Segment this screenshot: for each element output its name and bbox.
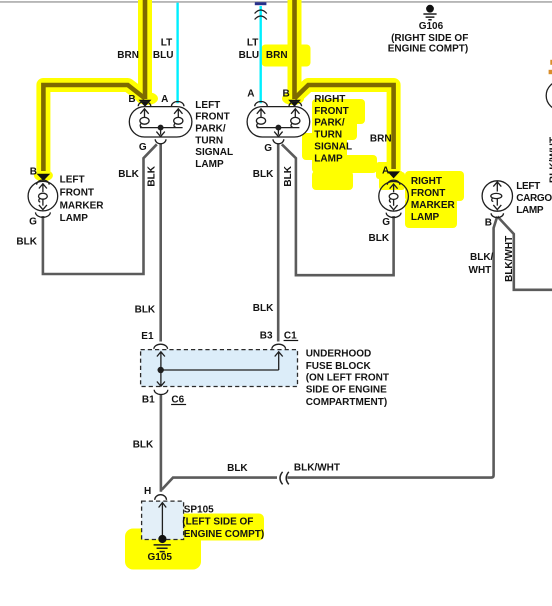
svg-text:B: B: [30, 166, 37, 177]
name left front park/turn signal lamp: [195, 100, 233, 170]
wire BLK fuse B1 to splice H: [160, 395, 163, 492]
svg-text:BLK/WHT: BLK/WHT: [294, 463, 340, 474]
svg-text:FRONT: FRONT: [411, 188, 445, 199]
svg-text:A: A: [161, 94, 168, 105]
svg-text:G: G: [264, 143, 272, 154]
highlight SP105 location text: [177, 514, 264, 541]
highlight right park/turn lamp name: [302, 99, 377, 190]
splice SP105 box: [142, 495, 184, 543]
wire BRN right branch to marker lamp: [295, 85, 394, 169]
svg-text:G106: G106: [419, 21, 444, 32]
svg-text:E1: E1: [141, 331, 154, 342]
svg-text:SIGNAL: SIGNAL: [314, 142, 352, 153]
svg-text:TURN: TURN: [314, 130, 342, 141]
svg-text:FUSE BLOCK: FUSE BLOCK: [306, 361, 372, 372]
svg-text:BLK: BLK: [133, 440, 154, 451]
highlight right BRN wire: [282, 0, 403, 180]
svg-text:RIGHT: RIGHT: [314, 94, 345, 105]
svg-text:LEFT: LEFT: [516, 181, 540, 192]
svg-text:B: B: [485, 217, 492, 228]
svg-text:B3: B3: [260, 331, 273, 342]
svg-text:BRN: BRN: [370, 134, 392, 145]
svg-text:UNDERHOOD: UNDERHOOD: [306, 348, 372, 359]
svg-text:LAMP: LAMP: [411, 212, 440, 223]
svg-text:LEFT: LEFT: [195, 100, 220, 111]
wire BLK right park/turn G to fuse B3: [277, 144, 280, 342]
svg-text:LAMP: LAMP: [516, 205, 544, 216]
orange marks right edge: [549, 70, 552, 74]
wire LT BLU left: [176, 3, 178, 104]
svg-text:SP105: SP105: [184, 504, 214, 515]
svg-text:C6: C6: [171, 395, 184, 406]
svg-text:LT: LT: [247, 37, 258, 48]
highlight left BRN wire: [34, 0, 158, 181]
underhood fuse block: [141, 344, 298, 394]
svg-text:BLU: BLU: [239, 50, 260, 61]
ground G106: [423, 5, 436, 20]
off-page connector at right LT BLU: [255, 2, 267, 19]
svg-text:TURN: TURN: [195, 135, 223, 146]
wire BLK/WHT connector to left cargo lamp B: [287, 217, 497, 478]
svg-text:BLK: BLK: [146, 165, 157, 186]
svg-text:BRN: BRN: [266, 50, 288, 61]
svg-text:(ON LEFT FRONT: (ON LEFT FRONT: [306, 373, 389, 384]
arrow BRN into left marker B: [37, 174, 51, 181]
highlight BRN label (right): [262, 45, 311, 67]
in-line connector on BLK/BLK-WHT wire: [280, 472, 289, 485]
svg-text:LAMP: LAMP: [60, 213, 89, 224]
wire LT BLU right: [260, 6, 262, 103]
lamp outline right front marker: [379, 180, 409, 217]
highlight G105: [125, 529, 201, 570]
svg-text:G: G: [139, 142, 147, 153]
svg-text:MARKER: MARKER: [411, 200, 456, 211]
top border line: [0, 1, 552, 3]
svg-text:SIGNAL: SIGNAL: [195, 147, 233, 158]
wire BLK horizontal to splice: [162, 478, 277, 490]
svg-text:BLK: BLK: [118, 169, 139, 180]
svg-text:MARKER: MARKER: [60, 200, 105, 211]
wire BLK/WHT cargo lamp branch to right edge: [498, 217, 552, 290]
wire BRN right vertical: [292, 0, 297, 99]
svg-text:LEFT: LEFT: [60, 174, 85, 185]
svg-text:G105: G105: [148, 552, 173, 563]
svg-text:FRONT: FRONT: [195, 112, 229, 123]
svg-text:LAMP: LAMP: [195, 159, 224, 170]
svg-text:LAMP: LAMP: [314, 153, 343, 164]
svg-text:RIGHT: RIGHT: [411, 176, 442, 187]
name right front park/turn signal lamp: [314, 94, 352, 164]
svg-text:FRONT: FRONT: [314, 106, 348, 117]
svg-text:A: A: [247, 88, 254, 99]
highlight right marker lamp name: [405, 171, 464, 228]
wire BLK left marker G to left park/turn G: [43, 144, 157, 274]
svg-text:BLK/WHT: BLK/WHT: [549, 137, 552, 183]
svg-text:G: G: [382, 217, 390, 228]
wire BLK right marker G to right park/turn G: [282, 144, 394, 275]
svg-text:WHT: WHT: [469, 265, 492, 276]
svg-text:BLK: BLK: [16, 236, 37, 247]
name left cargo lamp: [516, 181, 552, 216]
svg-text:(RIGHT SIDE OF: (RIGHT SIDE OF: [391, 33, 468, 44]
name splice SP105: [182, 504, 264, 540]
svg-text:BLK: BLK: [369, 233, 390, 244]
svg-text:(LEFT SIDE OF: (LEFT SIDE OF: [182, 517, 253, 528]
svg-text:COMPARTMENT): COMPARTMENT): [306, 397, 387, 408]
name left front marker lamp: [60, 174, 105, 224]
name ground G106: [388, 21, 469, 54]
svg-text:BLK: BLK: [227, 463, 248, 474]
svg-text:BLK: BLK: [283, 165, 294, 186]
lamp outline left front marker: [28, 180, 58, 217]
partial lamp at right edge: [546, 81, 552, 110]
arrow BRN into right park/turn B: [288, 100, 301, 107]
svg-text:BLU: BLU: [153, 50, 174, 61]
ground G105: [154, 545, 171, 552]
name right front marker lamp: [411, 176, 456, 223]
svg-text:ENGINE COMPT): ENGINE COMPT): [184, 529, 265, 540]
highlight A label of right marker: [376, 162, 392, 179]
svg-text:LT: LT: [161, 37, 172, 48]
svg-text:BLK/: BLK/: [470, 252, 494, 263]
svg-text:BLK: BLK: [253, 303, 274, 314]
svg-text:ENGINE COMPT): ENGINE COMPT): [388, 43, 469, 54]
svg-text:PARK/: PARK/: [314, 118, 345, 129]
wire BRN left branch to marker lamp: [43, 85, 145, 171]
svg-text:BLK/WHT: BLK/WHT: [504, 236, 515, 282]
svg-text:SIDE OF ENGINE: SIDE OF ENGINE: [306, 385, 387, 396]
svg-text:G: G: [29, 217, 37, 228]
svg-text:B: B: [128, 94, 135, 105]
wire BLK left park/turn G to fuse E1: [159, 144, 162, 342]
name underhood fuse block: [306, 348, 389, 408]
arrow BRN into left park/turn B: [139, 100, 152, 107]
svg-text:BRN: BRN: [117, 50, 139, 61]
svg-text:B: B: [283, 88, 290, 99]
wire BRN left vertical: [143, 0, 148, 99]
arrow BRN into right marker A: [387, 171, 400, 178]
svg-text:H: H: [144, 486, 151, 497]
svg-text:PARK/: PARK/: [195, 124, 226, 135]
lamp outline left front park/turn: [129, 101, 192, 143]
svg-text:A: A: [382, 165, 389, 176]
svg-text:BLK: BLK: [135, 304, 156, 315]
svg-text:BLK: BLK: [253, 169, 274, 180]
lamp outline left cargo: [482, 181, 512, 218]
svg-text:B1: B1: [142, 395, 155, 406]
svg-text:FRONT: FRONT: [60, 187, 94, 198]
lamp outline right front park/turn: [247, 101, 310, 143]
svg-text:CARGO: CARGO: [516, 193, 552, 204]
